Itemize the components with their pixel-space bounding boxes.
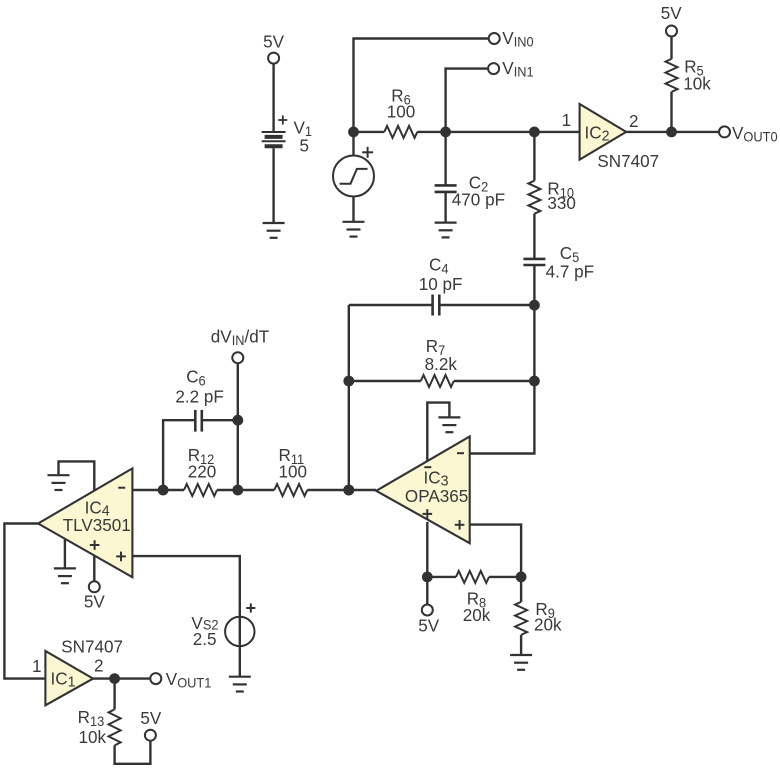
svg-text:10k: 10k: [79, 727, 107, 748]
svg-text:5V: 5V: [661, 3, 682, 24]
svg-text:10k: 10k: [683, 73, 711, 94]
svg-text:5V: 5V: [418, 615, 439, 636]
svg-text:220: 220: [188, 461, 217, 482]
svg-text:100: 100: [387, 101, 416, 122]
svg-text:5V: 5V: [263, 31, 284, 52]
svg-text:10 pF: 10 pF: [419, 274, 463, 295]
svg-text:2: 2: [94, 655, 104, 676]
svg-text:OPA365: OPA365: [405, 486, 469, 507]
svg-text:4.7 pF: 4.7 pF: [546, 261, 595, 282]
svg-text:5V: 5V: [84, 591, 105, 612]
svg-text:20k: 20k: [534, 614, 562, 635]
svg-text:1: 1: [32, 656, 42, 677]
svg-text:SN7407: SN7407: [61, 636, 123, 657]
svg-text:TLV3501: TLV3501: [63, 515, 131, 536]
svg-text:SN7407: SN7407: [597, 150, 659, 171]
svg-text:1: 1: [562, 110, 572, 131]
svg-text:330: 330: [547, 193, 576, 214]
svg-text:20k: 20k: [463, 604, 491, 625]
svg-text:8.2k: 8.2k: [425, 354, 458, 375]
svg-text:2.2 pF: 2.2 pF: [175, 386, 224, 407]
svg-text:5: 5: [300, 135, 310, 156]
svg-text:2.5: 2.5: [193, 629, 217, 650]
svg-text:470 pF: 470 pF: [452, 189, 505, 210]
svg-text:5V: 5V: [140, 708, 161, 729]
svg-text:2: 2: [629, 110, 639, 131]
svg-text:100: 100: [279, 461, 308, 482]
